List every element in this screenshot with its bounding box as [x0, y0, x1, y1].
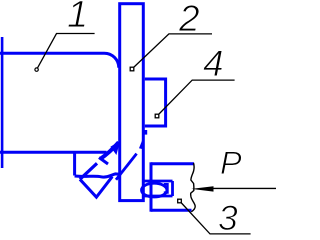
diamond cam upper-right partial edge: [99, 158, 108, 165]
leader 3 dot: [178, 199, 182, 203]
bracket 3 left edge: [150, 162, 153, 211]
break wavy line of bracket 3: [191, 163, 196, 212]
leader 1 line and shelf: [37, 34, 94, 69]
cylinder body 1 bottom edge: [0, 151, 107, 154]
force P arrow head: [191, 186, 213, 191]
leader 4 line and shelf: [159, 80, 235, 114]
roller slot top: [142, 180, 173, 183]
label 4: [203, 45, 224, 82]
roller ellipse: [142, 183, 167, 197]
roller slot bottom: [142, 195, 173, 198]
lever arrow shaft through plate: [116, 154, 137, 180]
leader 4 dot: [155, 114, 159, 118]
swing arrow shaft upper segment: [101, 142, 119, 159]
roller slot right: [171, 181, 174, 196]
label 1: [67, 0, 88, 34]
force P arrow line: [209, 187, 276, 189]
bracket 3 top edge: [151, 162, 194, 165]
leader 1 dot: [35, 68, 38, 71]
label 2: [179, 0, 200, 37]
block 4 outline: [145, 79, 166, 126]
leader 2 line and shelf: [134, 34, 213, 68]
label 3: [218, 201, 238, 237]
lever arrow head: [139, 140, 142, 149]
wavy line under finger: [75, 174, 120, 177]
finger vertical: [73, 154, 76, 176]
diamond cam V edges: [80, 177, 112, 198]
swing arrow head: [110, 141, 120, 155]
stub tick on plate right edge: [144, 130, 147, 135]
swing arrow shaft lower segment: [80, 163, 97, 179]
leader 2 dot: [130, 67, 134, 71]
cylinder body 1 top edge with rounded corner: [0, 53, 119, 67]
label P: [220, 147, 242, 180]
plate 2 outline: [120, 4, 144, 201]
roller pin bracket: [164, 184, 168, 192]
leader 3 line and shelf: [181, 203, 251, 234]
cylinder body 1 left face: [1, 37, 4, 168]
bracket 3 bottom edge: [151, 209, 192, 212]
